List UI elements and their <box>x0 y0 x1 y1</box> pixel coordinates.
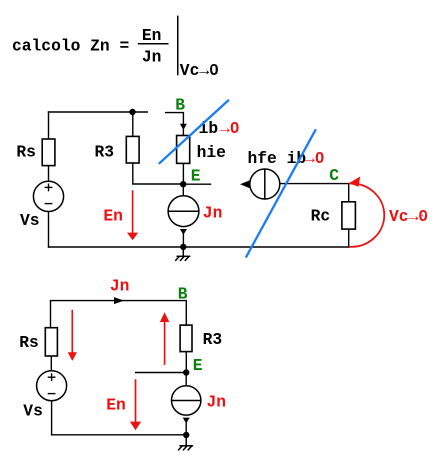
svg-text:C: C <box>329 166 339 185</box>
Jn source horizontal bar <box>172 400 201 402</box>
wire bottom horizontal <box>51 434 186 436</box>
current source Jn circle <box>172 386 201 415</box>
wire hfe to C corner <box>280 184 349 202</box>
wire Jn to ground <box>185 422 187 436</box>
wire R3 top <box>132 112 134 136</box>
node E junction dot <box>180 181 186 187</box>
resistor Rs <box>42 139 55 166</box>
ground <box>175 247 190 261</box>
red arc Vc->0 <box>349 183 384 246</box>
wire top horizontal <box>51 301 187 328</box>
wire R3 to E <box>185 352 187 373</box>
wire Vs to bottom <box>51 401 53 436</box>
resistor R3 <box>126 136 139 163</box>
Vs minus sign <box>48 393 56 395</box>
svg-text:Rc: Rc <box>311 206 331 225</box>
wire hie to E <box>182 163 184 184</box>
ground <box>178 435 193 450</box>
red arrow down beside Rs <box>68 310 77 361</box>
svg-text:En: En <box>142 26 162 45</box>
arrow Jn down <box>183 418 190 424</box>
svg-text:→0: →0 <box>220 119 240 138</box>
current source hfe circle <box>250 169 280 199</box>
svg-text:B: B <box>178 285 188 304</box>
red arc arrowhead <box>349 177 360 187</box>
svg-text:Jn: Jn <box>142 47 162 66</box>
Vs plus sign <box>48 373 56 381</box>
svg-text:Rs: Rs <box>19 333 39 352</box>
junction dot ground node <box>183 432 189 438</box>
wire R3 bottom to E-wire corner <box>133 163 183 184</box>
node E junction dot <box>183 369 189 375</box>
wire Jn to ground <box>182 233 184 247</box>
Vs minus sign <box>45 203 53 205</box>
wire left vertical upper <box>48 111 50 139</box>
svg-text:B: B <box>175 96 185 115</box>
svg-text:Vs: Vs <box>20 211 40 230</box>
svg-text:En: En <box>106 396 126 415</box>
svg-text:Jn: Jn <box>203 203 223 222</box>
svg-text:E: E <box>191 167 201 186</box>
current source Jn circle <box>168 196 199 227</box>
resistor hie <box>177 136 190 164</box>
formula evaluation bar <box>177 16 179 76</box>
red arrow En down <box>127 190 138 240</box>
wire Rc bottom <box>348 229 350 248</box>
wire E stub <box>135 372 186 374</box>
svg-text:Jn: Jn <box>207 393 227 412</box>
arrow ib down <box>180 124 187 130</box>
resistor R3 <box>180 325 192 352</box>
hfe source vertical bar <box>264 169 266 199</box>
svg-text:Rs: Rs <box>16 143 36 162</box>
wire E to Jn source <box>182 184 184 196</box>
resistor Rs <box>45 328 57 356</box>
voltage source Vs circle <box>37 371 67 401</box>
wire B stub <box>165 113 183 125</box>
svg-text:Vc→0: Vc→0 <box>389 207 428 226</box>
blue strike line 1 <box>160 100 229 163</box>
Vs plus sign <box>45 184 53 192</box>
svg-text:Vs: Vs <box>23 401 43 420</box>
svg-text:En: En <box>103 207 123 226</box>
voltage source Vs circle <box>33 181 63 211</box>
svg-text:calcolo Zn =: calcolo Zn = <box>12 37 129 56</box>
wire Rs to Vs <box>50 356 52 371</box>
resistor Rc <box>342 202 356 229</box>
svg-text:ib: ib <box>199 119 219 138</box>
wire E to Jn <box>185 373 187 387</box>
svg-text:R3: R3 <box>95 143 115 162</box>
wire Vs to bottom <box>48 212 50 248</box>
arrow hfe source left <box>240 180 250 188</box>
svg-text:→0: →0 <box>305 149 325 168</box>
junction dot top node <box>129 109 135 115</box>
wire arrow to hie <box>182 128 184 136</box>
svg-text:E: E <box>193 356 203 375</box>
wire bottom horizontal <box>48 246 349 248</box>
junction dot ground node <box>180 244 186 250</box>
svg-text:Jn: Jn <box>110 276 130 295</box>
wire E horizontal <box>183 183 211 185</box>
red arrow En down <box>130 379 141 430</box>
arrow Jn direction right <box>114 297 124 304</box>
arrow Jn down <box>180 229 187 235</box>
svg-text:R3: R3 <box>203 330 223 349</box>
formula fraction bar <box>138 43 169 45</box>
wire Rs to Vs <box>48 166 50 182</box>
Jn source horizontal bar <box>168 210 199 212</box>
red arrow up beside R3 <box>160 312 169 365</box>
blue strike line 2 <box>246 130 315 257</box>
svg-text:hie: hie <box>197 143 226 162</box>
zero glyph counter patches (plain zero like target) <box>212 67 425 217</box>
wire top horizontal <box>48 111 148 113</box>
